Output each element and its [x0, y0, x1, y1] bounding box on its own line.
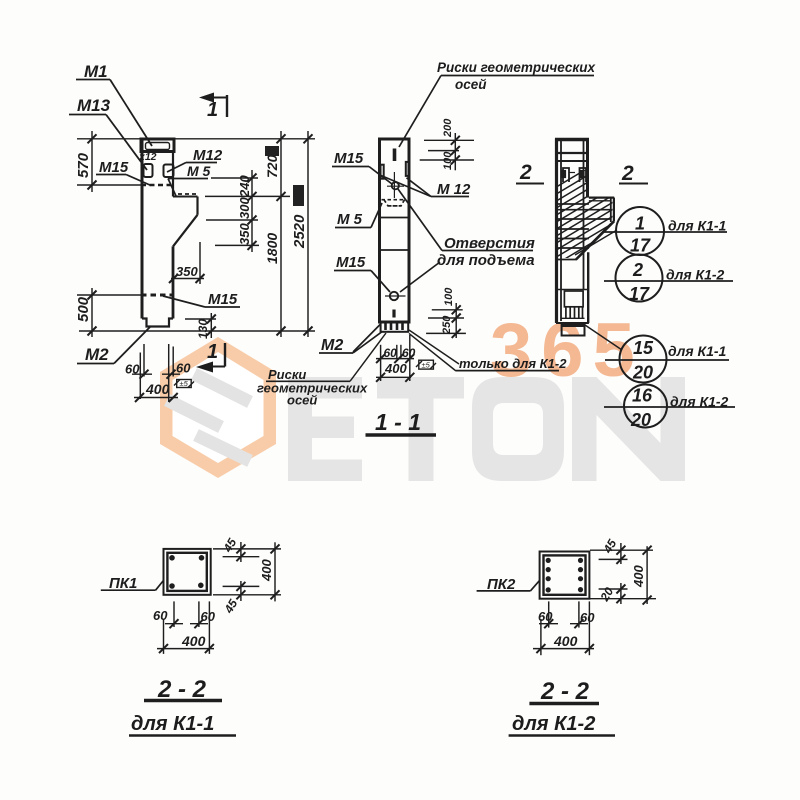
- middle view: section 1-1: [257, 60, 596, 435]
- svg-text:М 5: М 5: [187, 163, 211, 179]
- riska mark top: [393, 149, 397, 162]
- svg-text:для подъема: для подъема: [437, 252, 535, 269]
- watermark letter O: [472, 377, 564, 481]
- stirrups side: [556, 204, 611, 260]
- column right edge upper: [172, 152, 174, 197]
- svg-text:2: 2: [621, 162, 634, 185]
- section marker 1 top: [199, 93, 227, 122]
- svg-text:осей: осей: [455, 77, 487, 92]
- dim chain 720-1800: [264, 131, 286, 337]
- plate M13: [144, 164, 153, 177]
- watermark group: [160, 308, 685, 481]
- svg-text:17: 17: [629, 284, 650, 304]
- plate M12 right: [406, 162, 409, 176]
- svg-text:60: 60: [176, 361, 191, 376]
- hook right: [580, 168, 587, 182]
- corbel side: [589, 197, 614, 199]
- column left edge: [141, 139, 144, 319]
- dim 570: [75, 131, 141, 192]
- dim 400 right: [259, 542, 280, 601]
- svg-text:М12: М12: [193, 147, 223, 164]
- bottom dims PK1: [153, 601, 216, 654]
- upper lifting hole: [392, 182, 399, 189]
- svg-text:350: 350: [237, 223, 252, 245]
- callout circle 16/20: [604, 385, 735, 431]
- svg-text:240: 240: [237, 175, 252, 198]
- dim 45 top: [213, 536, 281, 562]
- svg-text:100: 100: [443, 287, 455, 306]
- callout circle 15/20: [585, 325, 729, 383]
- svg-text:400: 400: [259, 559, 274, 582]
- svg-text:60: 60: [153, 608, 168, 623]
- bottom foot 1-1: [381, 322, 409, 332]
- dim 350 corbel: [169, 242, 205, 284]
- dims 200 100 top: [420, 118, 474, 171]
- svg-text:1: 1: [635, 214, 645, 234]
- svg-text:только для К1-2: только для К1-2: [459, 356, 567, 371]
- dims 100 250 bottom right: [426, 287, 466, 338]
- dim 500: [75, 288, 141, 337]
- svg-text:400: 400: [384, 361, 407, 376]
- svg-text:130: 130: [196, 319, 210, 339]
- callout circle 2/17: [604, 255, 733, 305]
- svg-text:570: 570: [75, 152, 92, 178]
- svg-text:М 5: М 5: [337, 211, 363, 228]
- lower lifting hole: [390, 292, 398, 300]
- black mark upper: [265, 146, 279, 156]
- svg-text:Риски геометрических: Риски геометрических: [437, 60, 596, 75]
- rebar dots PK2: [546, 558, 551, 563]
- svg-text:60: 60: [201, 609, 216, 624]
- svg-text:100: 100: [442, 151, 454, 170]
- svg-text:1 - 1: 1 - 1: [375, 409, 421, 435]
- dim 130: [185, 313, 216, 339]
- plate M12: [164, 165, 174, 178]
- svg-text:для К1-1: для К1-1: [668, 343, 727, 359]
- watermark letter T: [377, 377, 464, 399]
- svg-text:2520: 2520: [291, 214, 308, 249]
- foot side: [562, 323, 585, 336]
- inner square PK2: [544, 555, 586, 594]
- dashed line M15 lower: [141, 294, 173, 297]
- dim 400 right PK2: [631, 546, 652, 605]
- dim 20 bottom PK2: [590, 583, 656, 604]
- svg-text:400: 400: [631, 565, 646, 588]
- svg-text:М1: М1: [84, 62, 108, 81]
- corbel right edge: [196, 197, 198, 215]
- svg-text:для К1-2: для К1-2: [512, 713, 595, 735]
- side column outline: [555, 139, 558, 324]
- watermark letter E: [288, 377, 685, 481]
- svg-text:М2: М2: [321, 337, 343, 354]
- svg-text:350: 350: [176, 264, 198, 279]
- tolerance box mid: [416, 360, 436, 369]
- svg-text:для К1-2: для К1-2: [666, 267, 725, 283]
- svg-text:М15: М15: [208, 291, 238, 308]
- svg-text:М15: М15: [99, 159, 129, 176]
- svg-text:для К1-2: для К1-2: [670, 394, 729, 410]
- svg-text:М13: М13: [77, 96, 111, 115]
- riska mark bottom: [392, 310, 395, 318]
- watermark hexagon logo: [160, 337, 276, 478]
- bottom right: section 2-2 for K1-2: [477, 537, 656, 736]
- svg-text:М15: М15: [334, 150, 364, 167]
- right view: side elevation: [516, 139, 735, 431]
- svg-text:17: 17: [630, 236, 651, 256]
- dim 45 top PK2: [590, 537, 653, 564]
- baseline bottom: [79, 330, 315, 332]
- svg-text:200: 200: [442, 118, 454, 138]
- svg-text:±5: ±5: [422, 361, 431, 370]
- svg-text:2: 2: [519, 161, 532, 184]
- plate M12 left: [381, 165, 384, 179]
- dim 2520: [291, 131, 313, 337]
- svg-text:для К1-1: для К1-1: [131, 713, 214, 735]
- svg-text:1800: 1800: [264, 233, 280, 264]
- svg-text:М 12: М 12: [437, 181, 471, 198]
- svg-text:400: 400: [145, 381, 170, 397]
- outer square PK2: [540, 552, 590, 599]
- svg-text:1: 1: [207, 99, 218, 121]
- tolerance box plus-minus 5: [174, 379, 194, 388]
- svg-text:2 - 2: 2 - 2: [540, 678, 590, 705]
- column bottom tenon: [142, 319, 173, 327]
- svg-text:20: 20: [630, 410, 651, 430]
- left view: column K1 elevation: [69, 62, 315, 402]
- svg-text:500: 500: [75, 296, 92, 322]
- drawing group: [69, 60, 735, 736]
- svg-text:400: 400: [553, 633, 578, 649]
- svg-text:250: 250: [441, 315, 453, 335]
- section marker 1 bottom: [196, 341, 225, 373]
- top extension line: [174, 138, 315, 140]
- hook left: [563, 168, 569, 182]
- svg-text:720: 720: [264, 154, 280, 178]
- bottom dims mid 60 60 400: [376, 335, 416, 382]
- dashed line M15 upper: [141, 184, 173, 187]
- svg-text:1: 1: [207, 341, 218, 363]
- bottom dims PK2: [533, 601, 595, 655]
- column cap: [141, 139, 174, 152]
- lower zone side: [556, 289, 589, 291]
- svg-text:60: 60: [580, 610, 595, 625]
- rebar dots: [169, 555, 175, 561]
- inner face lines: [560, 141, 562, 321]
- svg-text:Отверстия: Отверстия: [444, 235, 535, 252]
- leader M1: [110, 80, 152, 147]
- svg-text:2: 2: [632, 260, 643, 280]
- stirrup line 1: [380, 217, 410, 219]
- svg-text:М2: М2: [85, 345, 109, 364]
- svg-text:16: 16: [632, 386, 653, 406]
- column body 1-1: [380, 139, 410, 322]
- corbel slope: [576, 221, 614, 259]
- svg-text:15: 15: [633, 338, 654, 358]
- svg-text:±5: ±5: [180, 379, 189, 388]
- outer square PK1: [164, 549, 211, 595]
- corbel top edge: [173, 196, 198, 198]
- bottom dims 60 60 400: [125, 344, 191, 402]
- dim chain 240-300-350: [205, 170, 290, 252]
- stirrup line 2: [380, 249, 410, 251]
- dashed console M5: [382, 200, 406, 206]
- callout circle 1/17: [575, 207, 727, 256]
- column right edge lower: [172, 246, 175, 318]
- black mark lower: [293, 185, 304, 206]
- svg-text:М15: М15: [336, 254, 366, 271]
- watermark letter N: [572, 377, 685, 481]
- bottom left: section 2-2 for K1-1: [101, 536, 281, 736]
- dim 45 bottom: [213, 581, 281, 616]
- inner square PK1: [167, 553, 206, 591]
- svg-text:осей: осей: [287, 393, 317, 408]
- svg-text:20: 20: [632, 363, 653, 383]
- corbel chamfer: [173, 215, 198, 247]
- svg-text:400: 400: [181, 633, 206, 649]
- leader M13: [106, 115, 147, 171]
- svg-text:для К1-1: для К1-1: [668, 218, 727, 234]
- svg-text:300: 300: [237, 197, 252, 219]
